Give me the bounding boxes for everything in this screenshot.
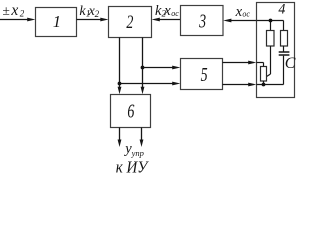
wire xoc from block 4 to block 3 [223,19,256,23]
svg-text:упр: упр [131,148,144,158]
wire R2 to capacitor [283,46,285,52]
label k1x2 [79,4,99,19]
wire vertical right from block 2 to block 6 [141,38,145,95]
svg-text:2: 2 [20,9,25,19]
svg-text:5: 5 [201,64,208,86]
block 5 [181,59,223,90]
label xoc [235,4,251,20]
node junction dot bottom bus [262,83,266,87]
wire xoc node inside block 4 [257,21,284,31]
wire output arrow left from block 6 [118,128,122,148]
node junction dot on xoc wire [269,19,273,23]
wire k1x2 from block 1 to block 2 [77,18,109,22]
svg-text:4: 4 [278,2,285,18]
wire bottom bus inside block 4 [257,81,284,85]
wire k2xoc from block 3 to block 2 [152,18,181,22]
svg-text:2: 2 [126,13,133,33]
svg-text:x: x [163,3,171,19]
resistor R2 right [281,31,288,47]
wire block 5 upper output to block 4 [223,61,257,65]
wire upper input to block 5 [143,66,181,70]
node junction dot left vertical [118,82,122,86]
wire vertical left from block 2 to block 6 [118,38,122,95]
block 1 [36,8,77,37]
svg-text:ос: ос [171,9,179,18]
label k2xoc [155,3,179,19]
svg-text:2: 2 [95,9,100,19]
svg-text:x: x [235,4,243,20]
svg-text:±: ± [2,3,9,18]
wire capacitor to bottom [283,56,285,85]
label ±x2 [2,2,24,19]
svg-text:C: C [285,55,296,72]
block 4 [257,2,295,98]
wire wiper from R1 to potentiometer [267,46,271,76]
potentiometer R3 [261,67,267,82]
block 6 [111,95,151,128]
svg-text:к ИУ: к ИУ [116,157,150,176]
wire output arrow right from block 6 [140,128,144,148]
svg-text:x: x [10,2,18,19]
wire block 5 lower output to block 4 [223,83,257,87]
svg-text:ос: ос [242,10,250,19]
resistor R1 left [267,31,275,47]
wire lower input to block 5 [120,82,181,86]
svg-text:1: 1 [53,12,61,31]
wire input arrow [0,18,35,22]
block 2 [109,7,152,38]
block 3 [181,6,224,36]
capacitor C [279,52,296,72]
svg-text:3: 3 [198,12,206,33]
wire block5 upper output into potentiometer top [257,63,264,67]
svg-text:6: 6 [127,102,134,123]
label y upr [123,141,144,158]
node junction dot right vertical [141,66,145,70]
